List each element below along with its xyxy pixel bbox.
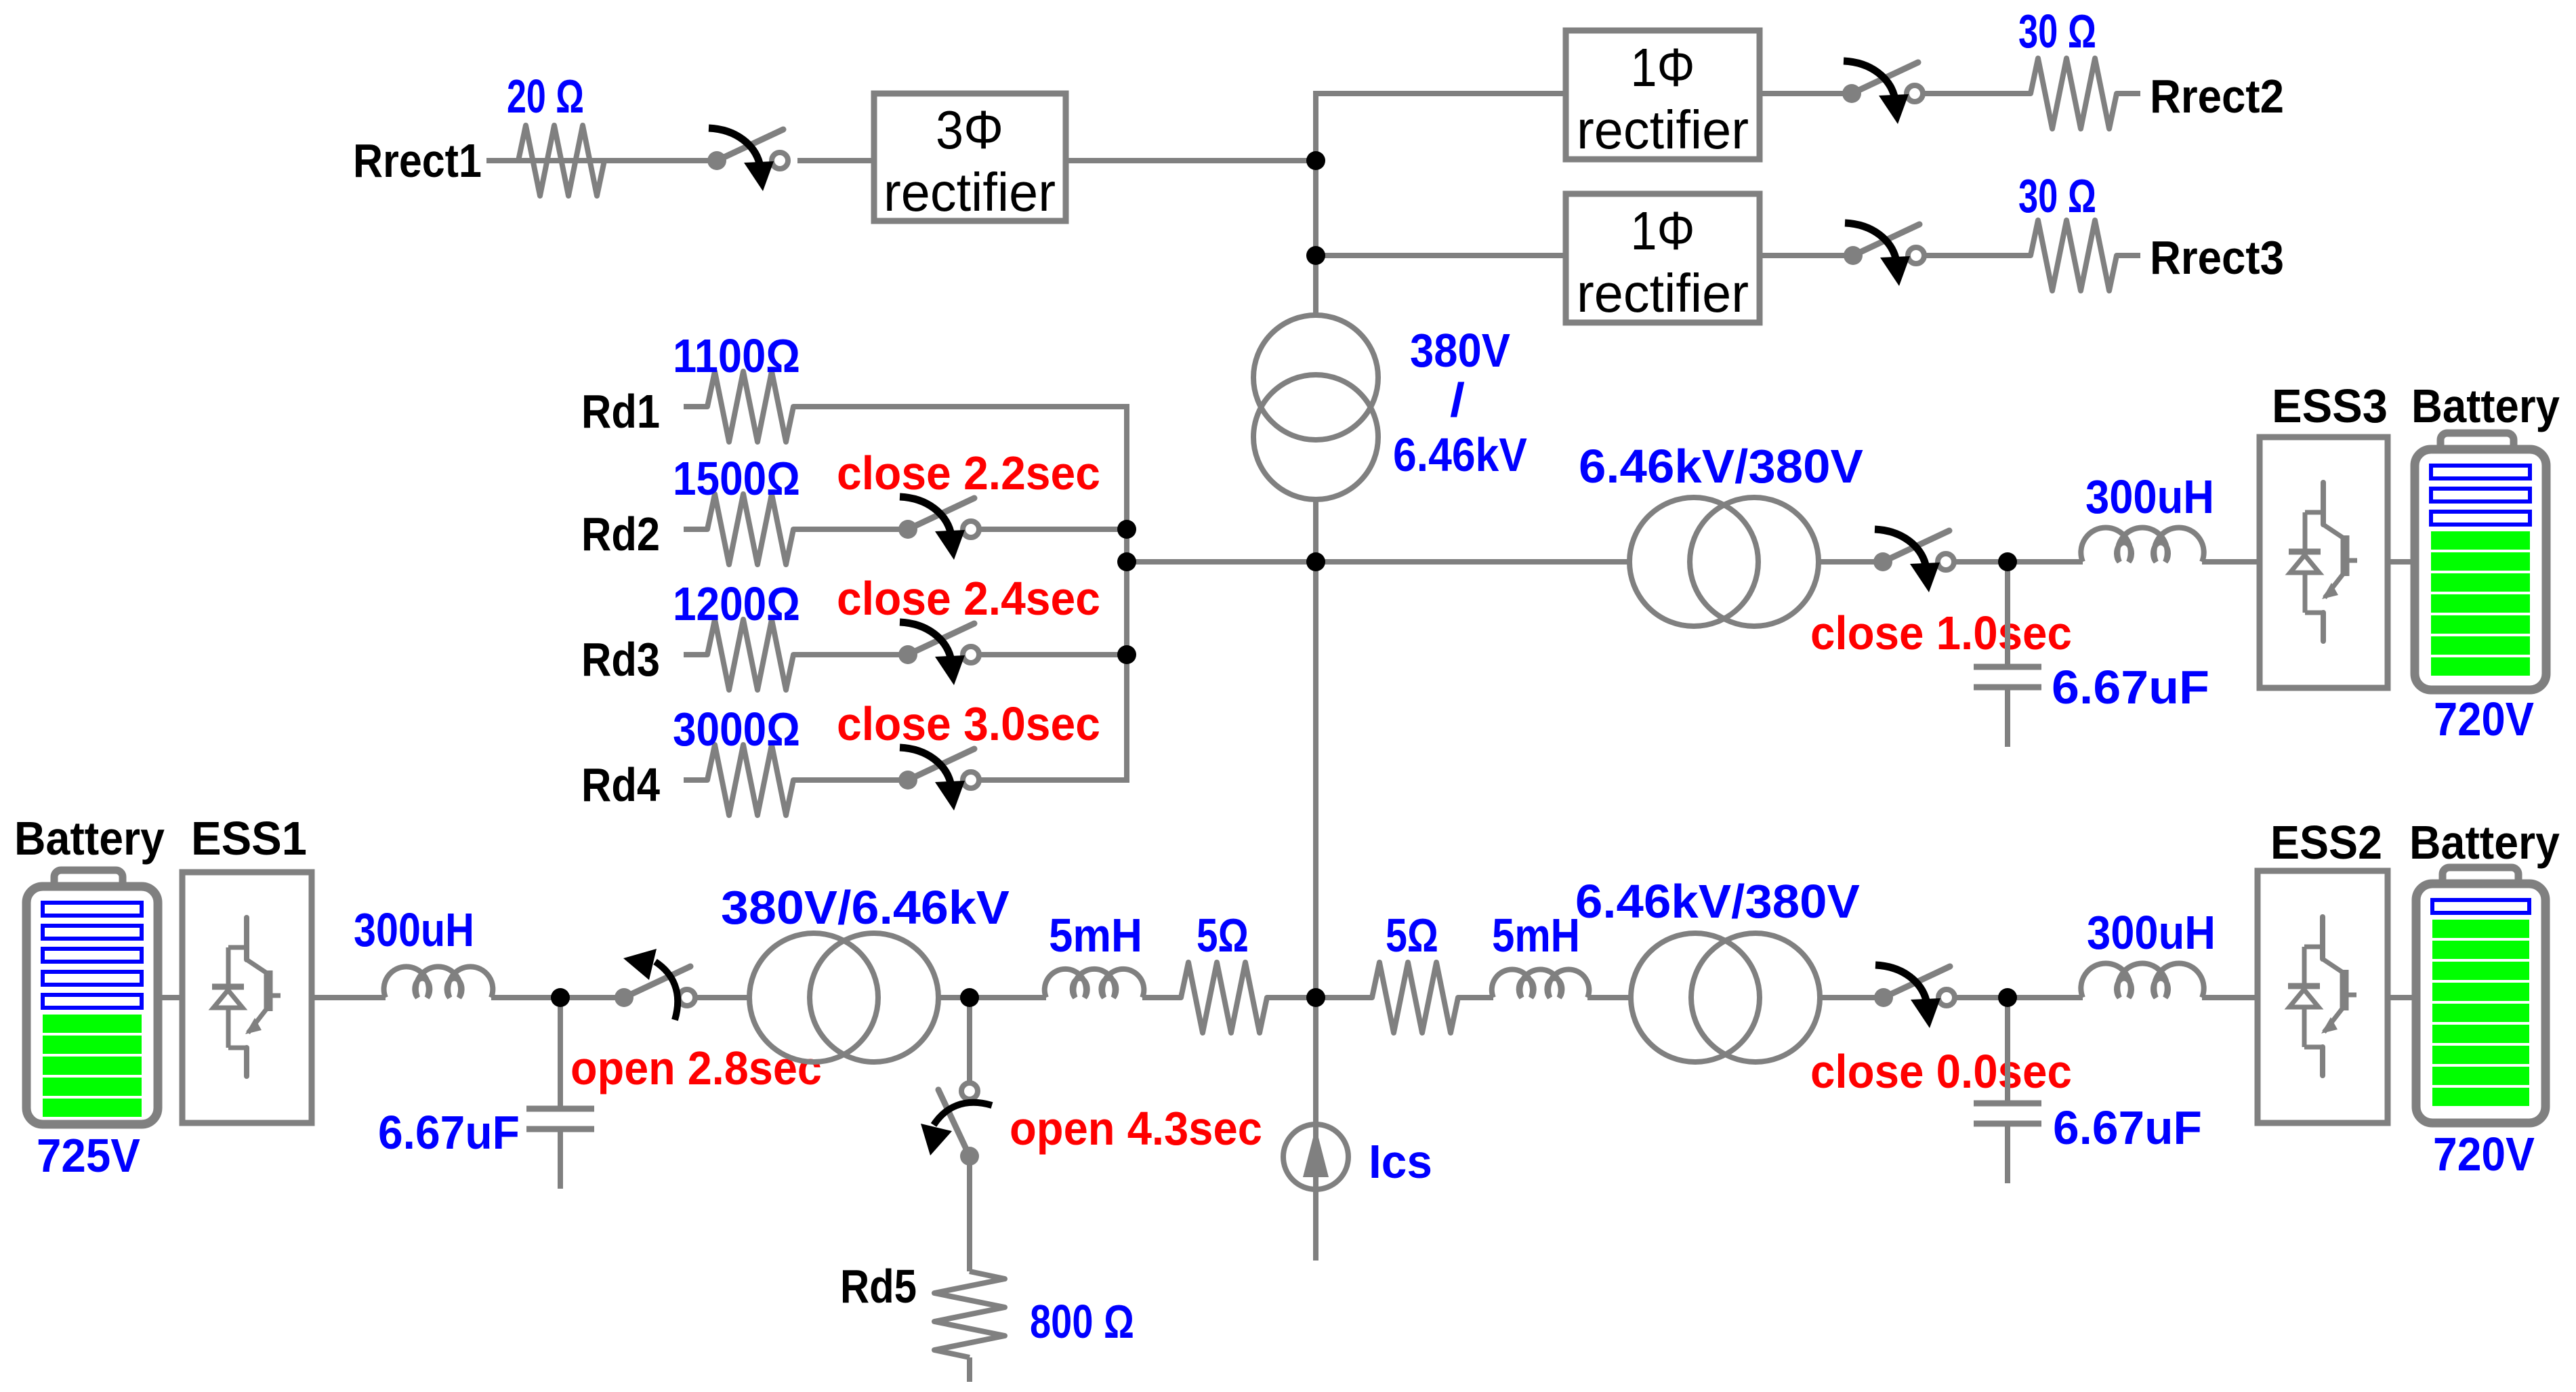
svg-text:1Φ: 1Φ — [1631, 201, 1695, 261]
label Rd5 — [840, 1260, 917, 1313]
inductor L4 300uH — [2081, 963, 2203, 998]
wire vertical central bus upper — [1313, 94, 1318, 315]
value B3 720V — [2434, 693, 2534, 746]
label 1-phi A — [1631, 37, 1695, 98]
value T3 6.46kV/380V — [1579, 440, 1863, 493]
switch S-ESS1 open 2.8sec — [615, 949, 695, 1020]
svg-text:Rrect2: Rrect2 — [2150, 70, 2284, 123]
converter ESS2 IGBT-diode — [2288, 917, 2356, 1076]
wire Rd2 resistor to switch — [817, 527, 908, 532]
label ESS3 — [2272, 380, 2388, 433]
capacitor C2 6.67uF — [1974, 998, 2041, 1183]
value T4 6.46kV/380V — [1575, 875, 1860, 928]
label open 4.3sec — [1010, 1103, 1262, 1155]
switch S-Rd5 open 4.3sec — [921, 1083, 992, 1166]
label Battery ESS2 — [2409, 817, 2560, 869]
svg-text:725V: 725V — [37, 1130, 140, 1182]
svg-text:Ics: Ics — [1369, 1135, 1432, 1188]
svg-text:rectifier: rectifier — [1577, 263, 1749, 323]
wire boxB to switch — [1760, 253, 1853, 258]
svg-text:ESS3: ESS3 — [2272, 380, 2388, 433]
label rectifier1 — [884, 162, 1056, 222]
svg-text:Rd1: Rd1 — [581, 384, 660, 438]
svg-text:6.46kV/380V: 6.46kV/380V — [1579, 440, 1863, 493]
wire switch to node ESS2 — [1955, 995, 2083, 1000]
wire switch to 3-phase rectifier — [797, 158, 874, 163]
svg-text:close 2.4sec: close 2.4sec — [837, 572, 1100, 625]
resistor Rd3 1200ohm — [684, 619, 817, 690]
label Rd3 — [581, 632, 660, 686]
svg-text:Battery: Battery — [2409, 817, 2560, 869]
wire L2a to R5a — [1142, 995, 1157, 1000]
node junction bus top — [1306, 151, 1325, 170]
svg-text:6.46kV/380V: 6.46kV/380V — [1575, 875, 1860, 928]
node ESS3 filter — [1998, 552, 2017, 571]
current source Ics — [1283, 1124, 1348, 1189]
svg-text:rectifier: rectifier — [884, 162, 1056, 222]
svg-text:5mH: 5mH — [1492, 909, 1580, 962]
svg-text:close 0.0sec: close 0.0sec — [1810, 1046, 2072, 1098]
wire Rd4 resistor to switch — [817, 777, 908, 783]
wire switch to T2 — [696, 995, 749, 1000]
svg-text:open 4.3sec: open 4.3sec — [1010, 1103, 1262, 1155]
box ESS1 converter — [182, 872, 312, 1123]
wire T4 to switch — [1819, 995, 1884, 1000]
label switch time Rd2 — [837, 447, 1100, 499]
svg-text:6.67uF: 6.67uF — [378, 1106, 520, 1159]
value B1 725V — [37, 1130, 140, 1182]
wire L1 to node — [491, 995, 624, 1000]
svg-text:720V: 720V — [2434, 693, 2534, 746]
resistor R5b 5ohm — [1348, 962, 1482, 1033]
svg-text:close 3.0sec: close 3.0sec — [837, 697, 1100, 750]
svg-text:6.67uF: 6.67uF — [2052, 661, 2209, 714]
wire 1-phase rectifier row 2 — [1316, 253, 1566, 258]
resistor Rd5 800ohm — [934, 1271, 1005, 1357]
value Rd2 1500ohm — [673, 453, 800, 506]
label Rrect1 — [353, 134, 482, 187]
wire 3-phase rectifier to bus — [1066, 158, 1316, 163]
svg-text:800 Ω: 800 Ω — [1030, 1296, 1134, 1348]
svg-text:close 1.0sec: close 1.0sec — [1810, 607, 2072, 659]
wire T3 to switch — [1820, 559, 1883, 565]
svg-text:open 2.8sec: open 2.8sec — [570, 1042, 822, 1095]
wire ESS1 to L1 — [312, 995, 386, 1000]
label Rd2 — [581, 507, 660, 560]
value Rd3 1200ohm — [673, 578, 800, 631]
value L2a 5mH — [1049, 909, 1142, 962]
svg-text:720V: 720V — [2433, 1128, 2535, 1181]
capacitor C1 6.67uF — [526, 998, 594, 1189]
label close 1.0sec — [1810, 607, 2072, 659]
label Ics — [1369, 1135, 1432, 1188]
label Rrect2 — [2150, 70, 2284, 123]
wire switch to Rrect3 resistor — [1925, 253, 2007, 258]
svg-text:5mH: 5mH — [1049, 909, 1142, 962]
wire switch to node ESS3 — [1955, 559, 2083, 565]
wire Rd3 switch to collector — [980, 652, 1127, 657]
label Rd4 — [581, 758, 660, 811]
switch S-Rd4 — [898, 748, 979, 811]
value C3 6.67uF — [2052, 661, 2209, 714]
resistor Rrect1 20ohm — [495, 125, 628, 196]
capacitor C3 6.67uF — [1974, 562, 2041, 747]
resistor Rd1 1100ohm — [684, 371, 817, 442]
svg-text:Rd5: Rd5 — [840, 1260, 917, 1313]
value Rd1 1100ohm — [673, 330, 800, 383]
wire ESS3 to battery — [2388, 559, 2415, 565]
value L1 300uH — [354, 903, 474, 956]
resistor Rrect2 30ohm — [2007, 58, 2140, 129]
node Rd2 junction — [1117, 520, 1136, 539]
label close 0.0sec — [1810, 1046, 2072, 1098]
svg-text:/: / — [1450, 373, 1465, 426]
svg-text:ESS1: ESS1 — [191, 812, 307, 865]
wire Rd5 tail — [967, 1357, 972, 1382]
value L2b 5mH — [1492, 909, 1580, 962]
svg-text:5Ω: 5Ω — [1386, 909, 1438, 962]
wire Rd3 resistor to switch — [817, 652, 908, 657]
svg-text:300uH: 300uH — [354, 903, 474, 956]
svg-text:Rrect3: Rrect3 — [2150, 231, 2284, 285]
resistor R5a 5ohm — [1157, 962, 1291, 1033]
svg-text:rectifier: rectifier — [1577, 100, 1749, 160]
wire Rd4 switch to collector — [980, 777, 1127, 783]
wire bus to Ics — [1313, 998, 1318, 1261]
node ESS2 filter — [1998, 988, 2017, 1007]
svg-text:6.46kV: 6.46kV — [1393, 429, 1527, 482]
wire Rd2 switch to collector — [980, 527, 1127, 532]
label Battery ESS3 — [2411, 380, 2560, 433]
svg-text:3000Ω: 3000Ω — [673, 703, 800, 756]
value T1 6.46kV — [1393, 429, 1527, 482]
node Rd5 tap — [960, 988, 979, 1007]
spacer Rd1 — [0, 0, 1, 1]
node center bottom — [1306, 988, 1325, 1007]
box 1-phase rectifier B — [1566, 194, 1760, 323]
switch S-Rd3 — [898, 622, 979, 685]
label rectifier A — [1577, 100, 1749, 160]
inductor L3 300uH — [2081, 527, 2203, 562]
svg-text:Rd3: Rd3 — [581, 632, 660, 686]
box 3-phase rectifier — [874, 94, 1066, 221]
svg-text:6.67uF: 6.67uF — [2053, 1101, 2202, 1154]
value R5b 5ohm — [1386, 909, 1438, 962]
wire Rd collector vertical — [1124, 404, 1129, 783]
svg-text:300uH: 300uH — [2087, 907, 2216, 960]
svg-text:3Φ: 3Φ — [936, 100, 1003, 160]
inductor L1 300uH — [384, 966, 493, 998]
value Rd5 800ohm — [1030, 1296, 1134, 1348]
value L3 300uH — [2085, 471, 2214, 524]
wire L4 to ESS2 — [2202, 995, 2258, 1000]
node Rd3 junction — [1117, 645, 1136, 664]
value B2 720V — [2433, 1128, 2535, 1181]
wire T2 to node Rd5 — [940, 995, 1046, 1000]
wire Rd1 to collector — [817, 404, 1127, 409]
value R5a 5ohm — [1197, 909, 1249, 962]
converter ESS1 IGBT-diode — [212, 918, 281, 1076]
svg-text:1Φ: 1Φ — [1631, 37, 1695, 98]
value T1 slash — [1450, 373, 1465, 426]
resistor Rrect3 30ohm — [2007, 220, 2140, 291]
svg-text:1500Ω: 1500Ω — [673, 453, 800, 506]
resistor Rd4 3000ohm — [684, 745, 817, 815]
label switch time Rd4 — [837, 697, 1100, 750]
wire switch to Rrect2 resistor — [1924, 91, 2007, 96]
value C1 6.67uF — [378, 1106, 520, 1159]
wire R5a to center — [1291, 995, 1316, 1000]
svg-text:1100Ω: 1100Ω — [673, 330, 800, 383]
resistor Rd2 1500ohm — [684, 494, 817, 565]
svg-text:Battery: Battery — [14, 813, 165, 865]
label ESS2 — [2270, 817, 2382, 869]
svg-text:300uH: 300uH — [2085, 471, 2214, 524]
switch S-ESS2 close 0.0sec — [1874, 965, 1955, 1028]
wire ESS2 to battery — [2388, 995, 2416, 1000]
label rectifier B — [1577, 263, 1749, 323]
svg-text:30 Ω: 30 Ω — [2018, 5, 2096, 58]
svg-text:380V: 380V — [1410, 325, 1510, 377]
svg-text:close 2.2sec: close 2.2sec — [837, 447, 1100, 499]
node ESS1 filter — [551, 988, 570, 1007]
wire mid bus left — [1127, 559, 1629, 565]
box ESS3 converter — [2260, 437, 2388, 688]
wire top row Rrect1 to switch — [486, 158, 717, 163]
svg-text:30 Ω: 30 Ω — [2018, 170, 2096, 223]
value 20ohm — [507, 70, 584, 123]
value 30ohm B — [2018, 170, 2096, 223]
wire R5b to L2b — [1482, 995, 1493, 1000]
wire L2b to T4 — [1587, 995, 1631, 1000]
svg-text:380V/6.46kV: 380V/6.46kV — [721, 882, 1010, 935]
value Rd4 3000ohm — [673, 703, 800, 756]
wire L3 to ESS3 — [2202, 559, 2260, 565]
label 1-phi B — [1631, 201, 1695, 261]
switch S-rect2 — [1842, 61, 1923, 124]
inductor L2a 5mH — [1045, 969, 1144, 998]
node Rd collector to bus — [1117, 552, 1136, 571]
switch S-rect3 — [1844, 223, 1924, 286]
label switch time Rd3 — [837, 572, 1100, 625]
svg-text:Rd4: Rd4 — [581, 758, 660, 811]
inductor L2b 5mH — [1492, 969, 1590, 998]
svg-text:5Ω: 5Ω — [1197, 909, 1249, 962]
wire battery to ESS1 — [158, 995, 182, 1000]
label Battery ESS1 — [14, 813, 165, 865]
switch S-ESS3 close 1.0sec — [1873, 529, 1954, 592]
svg-text:Rrect1: Rrect1 — [353, 134, 482, 187]
transformer T3 6.46kV-380V — [1629, 497, 1819, 626]
wire central bus mid — [1313, 498, 1318, 998]
svg-text:ESS2: ESS2 — [2270, 817, 2382, 869]
wire Rd5 switch to resistor — [967, 1156, 972, 1271]
value L4 300uH — [2087, 907, 2216, 960]
svg-text:1200Ω: 1200Ω — [673, 578, 800, 631]
label ESS1 — [191, 812, 307, 865]
label open 2.8sec — [570, 1042, 822, 1095]
wire 1-phase rectifier row 1 — [1313, 91, 1566, 96]
label 3-phi — [936, 100, 1003, 160]
box 1-phase rectifier A — [1566, 30, 1760, 159]
transformer T1 380V-6.46kV — [1253, 315, 1378, 499]
value T2 380V/6.46kV — [721, 882, 1010, 935]
value C2 6.67uF — [2053, 1101, 2202, 1154]
svg-text:Rd2: Rd2 — [581, 507, 660, 560]
label Rd1 — [581, 384, 660, 438]
converter ESS3 IGBT-diode — [2289, 483, 2357, 641]
transformer T4 6.46kV-380V — [1631, 933, 1820, 1062]
wire boxA to switch — [1760, 91, 1852, 96]
svg-text:Battery: Battery — [2411, 380, 2560, 433]
value 30ohm A — [2018, 5, 2096, 58]
value T1 380V — [1410, 325, 1510, 377]
wire center to R5b — [1316, 995, 1348, 1000]
battery B1 725V — [26, 870, 158, 1124]
node junction bus row2 — [1306, 246, 1325, 265]
wire node to Rd5 switch — [967, 998, 972, 1082]
label Rrect3 — [2150, 231, 2284, 285]
battery B3 720V — [2415, 433, 2546, 690]
switch S-Rd2 — [898, 497, 979, 560]
node junction mid bus — [1306, 552, 1325, 571]
battery B2 720V — [2416, 867, 2546, 1123]
box ESS2 converter — [2258, 871, 2388, 1123]
transformer T2 380V-6.46kV — [749, 933, 938, 1062]
switch S-rect1 — [707, 128, 788, 191]
svg-text:20 Ω: 20 Ω — [507, 70, 584, 123]
